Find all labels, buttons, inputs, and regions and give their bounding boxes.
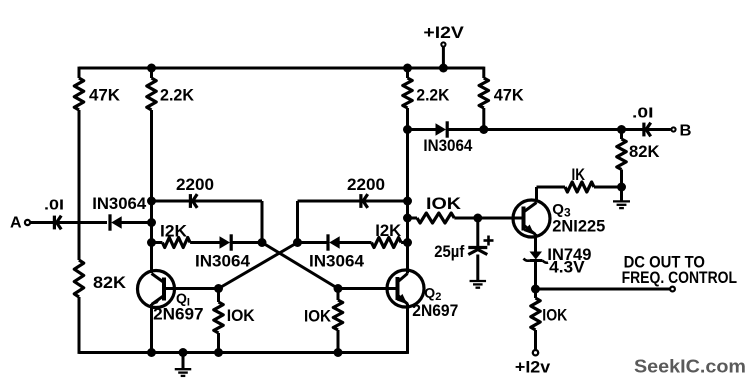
svg-text:A: A: [10, 215, 22, 232]
svg-text:2NI225: 2NI225: [552, 217, 605, 236]
svg-text:I2K: I2K: [160, 222, 188, 241]
svg-text:+I2V: +I2V: [423, 23, 464, 42]
svg-text:82K: 82K: [629, 142, 660, 161]
svg-text:25µf: 25µf: [434, 242, 464, 261]
svg-text:4.3V: 4.3V: [549, 258, 585, 277]
svg-text:2.2K: 2.2K: [160, 86, 195, 105]
svg-text:IK: IK: [572, 165, 586, 184]
svg-text:B: B: [680, 123, 692, 140]
svg-text:IOK: IOK: [542, 306, 568, 325]
svg-text:IN3064: IN3064: [92, 194, 147, 213]
svg-text:47K: 47K: [494, 86, 525, 105]
svg-text:SeekIC.com: SeekIC.com: [634, 356, 746, 377]
svg-text:2200: 2200: [347, 175, 385, 194]
svg-text:47K: 47K: [89, 86, 121, 105]
svg-text:2N697: 2N697: [153, 305, 204, 324]
svg-text:I2K: I2K: [375, 221, 402, 240]
svg-text:2N697: 2N697: [412, 301, 458, 320]
svg-text:.0I: .0I: [44, 197, 64, 214]
svg-text:IOK: IOK: [227, 306, 256, 325]
svg-text:IN3064: IN3064: [309, 251, 365, 270]
svg-text:.0I: .0I: [632, 105, 654, 122]
svg-text:IN3064: IN3064: [195, 251, 251, 270]
svg-text:IN3064: IN3064: [423, 136, 472, 155]
svg-text:82K: 82K: [93, 273, 127, 292]
svg-text:IOK: IOK: [426, 194, 462, 213]
svg-text:2.2K: 2.2K: [416, 86, 450, 105]
svg-text:+I2v: +I2v: [515, 358, 551, 377]
svg-text:2200: 2200: [176, 175, 214, 194]
svg-text:IOK: IOK: [304, 307, 332, 326]
svg-text:FREQ. CONTROL: FREQ. CONTROL: [622, 268, 737, 287]
